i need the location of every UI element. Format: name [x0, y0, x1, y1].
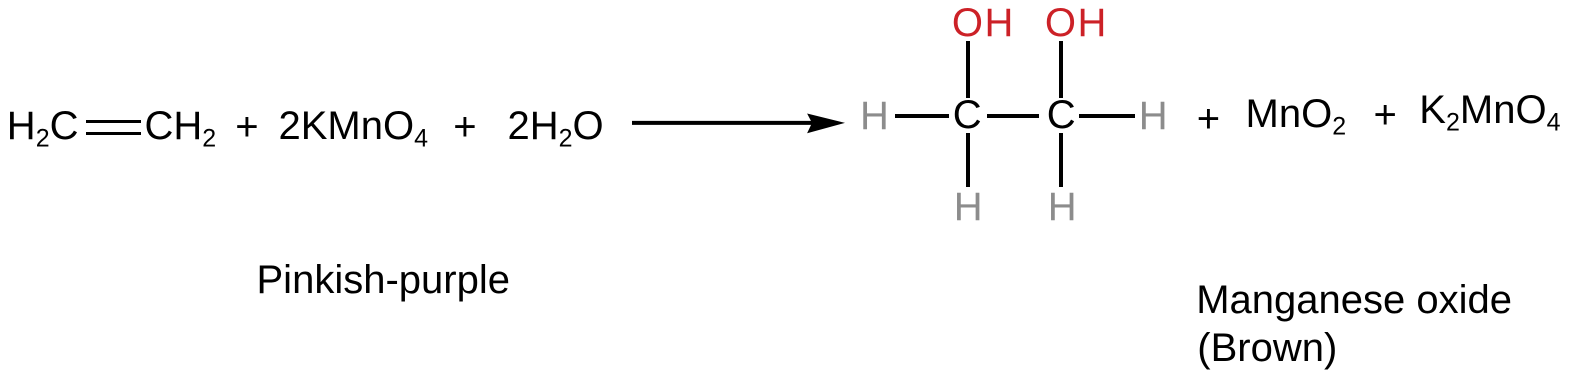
- plus sign 2: [453, 107, 476, 147]
- atom H left gray: [860, 96, 889, 136]
- bond C2 to H right: [1079, 114, 1135, 118]
- plus sign 1: [235, 107, 258, 147]
- reactant ethylene CH2: [145, 106, 217, 159]
- label brown line 2: [1197, 328, 1337, 368]
- atom H right gray: [1139, 96, 1168, 136]
- bond OH1 to C1: [966, 41, 970, 98]
- reactant ethylene H2C: [7, 106, 79, 159]
- label pinkish-purple: [257, 260, 510, 300]
- hydroxyl OH 1: [952, 3, 1015, 43]
- bond C1 to C2: [987, 114, 1039, 118]
- reaction arrow: [630, 105, 850, 141]
- bond OH2 to C2: [1059, 41, 1063, 98]
- bond H to C1: [895, 114, 949, 118]
- double bond line 1: [86, 120, 141, 123]
- bond C2 to bottom H2: [1059, 133, 1063, 187]
- reactant 2KMnO4: [279, 106, 429, 159]
- atom bottom H1 gray: [954, 187, 983, 227]
- bond C1 to bottom H1: [966, 133, 970, 187]
- label manganese oxide line 1: [1196, 280, 1512, 320]
- double bond line 2: [86, 132, 141, 135]
- product MnO2: [1246, 94, 1347, 147]
- atom C1: [953, 95, 982, 135]
- reactant 2H2O: [508, 106, 604, 159]
- plus sign 3: [1197, 99, 1220, 139]
- product K2MnO4: [1419, 90, 1560, 143]
- hydroxyl OH 2: [1045, 3, 1108, 43]
- atom C2: [1047, 95, 1076, 135]
- plus sign 4: [1374, 95, 1397, 135]
- atom bottom H2 gray: [1048, 187, 1077, 227]
